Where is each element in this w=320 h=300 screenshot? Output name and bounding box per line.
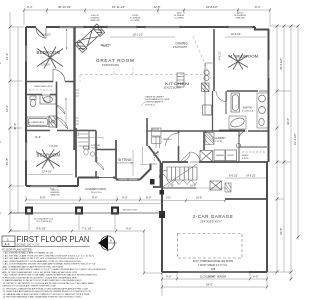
svg-text:3: 3 — [0, 63, 2, 65]
svg-text:15'-11 1/2": 15'-11 1/2" — [112, 5, 125, 9]
m.bath interior wall — [225, 91, 227, 114]
laundry right / closet walls — [239, 131, 267, 162]
kitchen note text — [141, 102, 146, 107]
svg-text:7'-1 1/2": 7'-1 1/2" — [82, 227, 92, 231]
right wall — [268, 29, 270, 162]
hatched box near garage top right — [225, 183, 231, 192]
svg-text:MICROWAVE HOOD OVER: MICROWAVE HOOD OVER — [146, 98, 170, 101]
svg-text:WASHER: WASHER — [216, 154, 225, 157]
svg-text:12'-8": 12'-8" — [154, 5, 161, 9]
svg-text:(TYP. ALL): (TYP. ALL) — [146, 103, 155, 106]
svg-text:12'X11'6: 12'X11'6 — [41, 65, 50, 67]
svg-text:9'-8 1/2": 9'-8 1/2" — [36, 227, 46, 231]
svg-text:14. PROVIDE HANDRAILS AND GUAR: 14. PROVIDE HANDRAILS AND GUARDRAILS PER… — [3, 296, 83, 299]
ceiling fan bedroom3 — [36, 150, 60, 169]
svg-text:DINING: DINING — [176, 42, 189, 46]
svg-text:10. DRYER TO BE VENTED TO OUTS: 10. DRYER TO BE VENTED TO OUTSIDE AIR W/… — [3, 282, 94, 285]
svg-text:6X6 WD. POST: 6X6 WD. POST — [123, 210, 138, 212]
ceiling fan bedroom2 — [37, 47, 63, 69]
bedroom3 bottom wall — [26, 185, 78, 187]
svg-text:SHELF: SHELF — [242, 155, 249, 157]
svg-text:4CB: 4CB — [211, 269, 216, 271]
svg-text:4'-0": 4'-0" — [253, 275, 259, 279]
svg-text:8'-4": 8'-4" — [255, 5, 261, 9]
foyer angled wall — [149, 146, 163, 187]
svg-text:1'X0'X0" SHEAR # 4'-0" O.C.: 1'X0'X0" SHEAR # 4'-0" O.C. — [198, 264, 228, 267]
svg-text:AND 2X HEADERS AND PLATE HEIGH: AND 2X HEADERS AND PLATE HEIGHT NOTED ON… — [3, 265, 64, 268]
svg-text:BEDROOM: BEDROOM — [37, 153, 61, 158]
svg-text:KITCHEN: KITCHEN — [165, 82, 190, 86]
porch door bar — [99, 177, 113, 179]
svg-text:COVERED PORCH: COVERED PORCH — [85, 188, 106, 191]
svg-text:2-CAR GARAGE: 2-CAR GARAGE — [193, 214, 234, 219]
svg-text:LAUNDRY: LAUNDRY — [214, 136, 227, 140]
svg-text:VENTED/CABINETS: VENTED/CABINETS — [146, 101, 164, 104]
svg-text:7'X5'10": 7'X5'10" — [215, 141, 223, 143]
bedroom2 top-left exterior door — [36, 28, 46, 38]
svg-text:26'-1 1/2": 26'-1 1/2" — [133, 34, 143, 37]
dimension texts — [27, 5, 261, 287]
laundry W/D — [200, 150, 237, 162]
m.bath door — [216, 91, 227, 102]
svg-text:12'3"X10'3"+BAY: 12'3"X10'3"+BAY — [117, 161, 134, 164]
svg-text:BROOM: BROOM — [152, 129, 159, 131]
built-in cabinets — [152, 128, 162, 144]
svg-text:LINEN SHELF+ROD: LINEN SHELF+ROD — [34, 86, 53, 88]
svg-text:15'-8": 15'-8" — [5, 158, 9, 165]
dining / m.bedroom wall — [213, 29, 215, 91]
room labels — [37, 42, 259, 195]
svg-text:13. GARAGE WALLS AND CEILING C: 13. GARAGE WALLS AND CEILING COMMON TO H… — [3, 293, 90, 296]
title block — [2, 235, 90, 247]
south wall step at powder/sitting — [78, 178, 116, 187]
kitchen/great room divider — [146, 118, 148, 146]
m.bath north wall — [227, 90, 258, 92]
svg-text:COL. PER ELEV.: COL. PER ELEV. — [36, 221, 52, 223]
svg-text:23'-8 1/2": 23'-8 1/2" — [206, 5, 218, 9]
bay/foyer notch — [151, 163, 158, 165]
front door — [159, 170, 167, 178]
window label stacks — [34, 13, 247, 224]
garage bottom wall — [162, 271, 267, 273]
svg-text:VENTED TO OUTSIDE AIR. VERIFY: VENTED TO OUTSIDE AIR. VERIFY CFM PER CO… — [3, 285, 57, 288]
stairs / mud — [161, 164, 197, 188]
svg-text:2. ALL EXT WALLS ARE TO BE 2X6: 2. ALL EXT WALLS ARE TO BE 2X6 SPF CONST… — [3, 254, 95, 257]
svg-text:SCALE: 1/4" = 1'-0": SCALE: 1/4" = 1'-0" — [17, 243, 40, 247]
svg-text:22'-8 1/2": 22'-8 1/2" — [231, 33, 241, 36]
bedroom2 right wall — [73, 27, 75, 150]
kitchen wall — [212, 91, 214, 131]
rotated side dim texts — [5, 51, 297, 235]
svg-text:1'-10": 1'-10" — [168, 185, 174, 188]
svg-text:42'-4": 42'-4" — [13, 123, 17, 130]
svg-text:16'-6": 16'-6" — [196, 197, 202, 200]
hall-sitting door — [96, 162, 104, 170]
svg-text:44'-4 1/2": 44'-4 1/2" — [279, 58, 283, 70]
svg-text:8'-8 1/2": 8'-8 1/2" — [229, 175, 238, 178]
porch posts — [25, 179, 165, 218]
windows (lighter in-wall segments) — [26, 27, 269, 272]
svg-text:M. BEDROOM: M. BEDROOM — [229, 55, 259, 59]
dashed ceiling lines — [80, 36, 211, 82]
porch lines — [10, 212, 162, 214]
svg-text:5'-0": 5'-0" — [78, 131, 80, 136]
top wall — [26, 26, 255, 28]
left margin tags — [0, 63, 2, 215]
svg-text:3. ALL INT. WALLS ARE TO BE 3: 3. ALL INT. WALLS ARE TO BE 3 1/2" SPF C… — [3, 257, 85, 260]
garage texts — [193, 214, 234, 279]
svg-text:24'-0": 24'-0" — [206, 283, 213, 287]
svg-text:(2) 2X12 CONT. HEADER: (2) 2X12 CONT. HEADER — [200, 276, 227, 279]
ceiling fan m.bedroom — [228, 54, 248, 70]
svg-text:N: N — [110, 239, 112, 243]
svg-text:8'-0": 8'-0" — [146, 196, 152, 200]
svg-text:M.BATH: M.BATH — [243, 107, 252, 110]
svg-text:3: 3 — [0, 213, 2, 215]
svg-text:4'-0": 4'-0" — [126, 227, 132, 231]
bedroom2 hall door — [53, 70, 65, 82]
garage man door — [190, 152, 200, 162]
fireplace — [75, 24, 105, 53]
svg-text:FLOOR PLAN NOTES:: FLOOR PLAN NOTES: — [3, 248, 33, 252]
svg-text:5-0 TMPD: 5-0 TMPD — [174, 18, 184, 20]
svg-text:17'-4 1/2": 17'-4 1/2" — [42, 171, 52, 174]
svg-text:13'-4": 13'-4" — [5, 53, 9, 60]
svg-text:HEARTH: HEARTH — [101, 44, 111, 47]
svg-text:9. WATER HEATER TO BE SET ON 1: 9. WATER HEATER TO BE SET ON 18" PLATFOR… — [3, 279, 83, 282]
attic/furnace boxes in garage — [210, 181, 222, 190]
svg-text:28'-0 X 8'-0: 28'-0 X 8'-0 — [91, 192, 102, 194]
svg-text:11'-8": 11'-8" — [35, 136, 41, 139]
svg-text:14'-6 1/2": 14'-6 1/2" — [246, 175, 256, 178]
m.bath fixtures — [229, 93, 268, 129]
svg-text:3: 3 — [0, 142, 2, 144]
door arcs — [36, 28, 247, 178]
svg-text:9'-4": 9'-4" — [27, 5, 33, 9]
m.bath/laundry wall — [204, 130, 268, 132]
svg-text:WINDOW: WINDOW — [50, 195, 59, 197]
svg-text:GREAT ROOM: GREAT ROOM — [96, 58, 135, 63]
svg-text:3'-6": 3'-6" — [97, 156, 99, 161]
svg-text:34'-0": 34'-0" — [286, 118, 290, 125]
svg-text:WINDOW: WINDOW — [235, 18, 244, 20]
svg-text:24'X7' OVERHEAD PANEL W/2 ROW: 24'X7' OVERHEAD PANEL W/2 ROWS — [193, 260, 234, 263]
svg-text:61'-4 1/2": 61'-4 1/2" — [293, 133, 297, 145]
svg-text:4-0 TEMP: 4-0 TEMP — [130, 20, 140, 22]
INTERIOR WALLS — [26, 27, 268, 180]
floor plan notes — [3, 248, 107, 299]
bath fixtures left — [27, 95, 57, 127]
bath door — [42, 95, 50, 103]
kitchen counters — [177, 63, 213, 115]
bath top wall — [26, 94, 57, 96]
svg-text:1: 1 — [7, 237, 9, 241]
svg-text:8'-10X10'-0: 8'-10X10'-0 — [242, 110, 254, 112]
left wall — [25, 27, 27, 186]
svg-text:23'4"X23'5"X9'-0": 23'4"X23'5"X9'-0" — [200, 220, 222, 224]
svg-text:FIRST FLOOR PLAN: FIRST FLOOR PLAN — [17, 235, 90, 244]
hall doors — [57, 105, 66, 114]
svg-text:7'-8 1/2": 7'-8 1/2" — [49, 145, 58, 148]
svg-text:& ROD: & ROD — [242, 158, 249, 160]
laundry shelf — [205, 133, 214, 145]
laundry door — [204, 131, 214, 142]
garage nw ledge — [162, 187, 196, 189]
svg-text:WINDOW: WINDOW — [90, 20, 99, 22]
water heater — [237, 144, 241, 148]
svg-text:3'-6": 3'-6" — [166, 197, 171, 200]
svg-text:7. ALL SMOKE DETECTORS TO BE H: 7. ALL SMOKE DETECTORS TO BE HARD WIRED … — [3, 274, 98, 277]
wic door — [239, 131, 247, 139]
svg-text:RANGE W/ CABINET: RANGE W/ CABINET — [146, 96, 165, 99]
pantry shelves — [75, 90, 266, 161]
svg-text:9'X22'XCATH: 9'X22'XCATH — [173, 46, 187, 49]
mud hall walls — [162, 130, 204, 132]
svg-text:10'-0": 10'-0" — [190, 185, 196, 188]
svg-text:PANTRY: PANTRY — [163, 138, 172, 141]
svg-text:10'X12'2"&CATH: 10'X12'2"&CATH — [164, 86, 182, 89]
svg-text:12'-0": 12'-0" — [5, 105, 9, 112]
svg-text:60" FIBERGLASS: 60" FIBERGLASS — [28, 121, 45, 124]
svg-text:8. PROVIDE 22X30 MIN ATTIC ACC: 8. PROVIDE 22X30 MIN ATTIC ACCESS. LOCAT… — [3, 276, 77, 279]
svg-text:1. ALL EXTERIOR WALLS ARE TO F: 1. ALL EXTERIOR WALLS ARE TO FRAME UP 2X… — [3, 252, 55, 255]
svg-text:DRYER: DRYER — [228, 155, 235, 157]
bath right wall — [56, 82, 58, 129]
powder room fixtures — [84, 146, 95, 156]
svg-text:11. PROVIDE COMBUSTION AIR FOR: 11. PROVIDE COMBUSTION AIR FOR ALL FUEL … — [3, 287, 89, 290]
EXTERIOR WALLS — [26, 27, 269, 272]
bath bottom wall — [26, 130, 96, 132]
svg-text:BEDROOM: BEDROOM — [37, 50, 61, 55]
powder / hall walls — [88, 131, 90, 151]
sitting bay — [116, 164, 151, 180]
svg-text:8'-0": 8'-0" — [92, 196, 98, 200]
bedroom2 bottom wall — [26, 81, 74, 83]
svg-text:4'-0": 4'-0" — [122, 196, 128, 200]
svg-text:24'-8": 24'-8" — [279, 228, 283, 235]
house south wall at garage — [162, 161, 268, 163]
svg-text:A-4: A-4 — [5, 243, 10, 247]
svg-text:4. ALL WINDOW AND EXT. DOOR HE: 4. ALL WINDOW AND EXT. DOOR HEADERS TO B… — [3, 260, 82, 263]
front door on angled wall — [154, 152, 159, 156]
svg-text:ROOM: ROOM — [92, 147, 99, 149]
garage dashed storage rect — [178, 234, 243, 259]
svg-text:AND 24" MIN CLEAR HEIGHT. SILL: AND 24" MIN CLEAR HEIGHT. SILLS NO MORE … — [3, 271, 78, 274]
svg-text:5. ALL DOOR HEADERS SHOWN ON P: 5. ALL DOOR HEADERS SHOWN ON PLANS ARE N… — [3, 263, 96, 266]
svg-text:19'X19'XCATH: 19'X19'XCATH — [102, 63, 119, 67]
svg-text:4'-0": 4'-0" — [166, 275, 172, 279]
svg-text:4'-6 1/2": 4'-6 1/2" — [219, 51, 222, 60]
bedroom3 right wall — [75, 128, 77, 178]
svg-text:6. ALL EGRESS WINDOWS TO HAVE: 6. ALL EGRESS WINDOWS TO HAVE 5.7 SQ FT … — [3, 268, 107, 271]
garage left wall — [161, 163, 163, 272]
svg-text:12. VERIFY ALL APPLIANCE ROUGH: 12. VERIFY ALL APPLIANCE ROUGH-IN DIMS W… — [3, 290, 91, 293]
north arrow — [98, 235, 117, 252]
svg-text:46'-10 1/2": 46'-10 1/2" — [58, 5, 71, 9]
svg-text:8'-0": 8'-0" — [40, 196, 46, 200]
